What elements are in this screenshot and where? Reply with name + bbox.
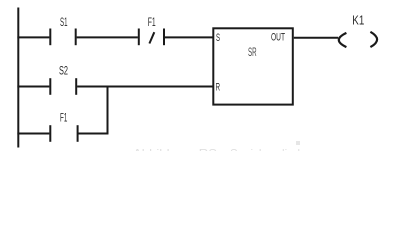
svg-text:S2: S2 — [59, 64, 68, 78]
svg-text:R: R — [216, 82, 220, 94]
svg-text:Speicherglied: Speicherglied — [230, 147, 300, 152]
svg-text:S: S — [216, 32, 220, 44]
svg-text:F1: F1 — [148, 15, 156, 29]
svg-text:F1: F1 — [60, 110, 67, 124]
svg-text:SR: SR — [248, 45, 257, 59]
svg-text:OUT: OUT — [271, 32, 285, 44]
svg-text:Abbildung: RS: Abbildung: RS — [133, 147, 217, 152]
svg-text:K1: K1 — [352, 13, 364, 28]
svg-text:S1: S1 — [60, 15, 68, 29]
